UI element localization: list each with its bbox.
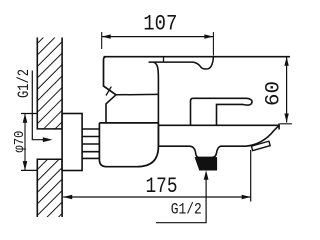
dim 60: extension bottom bbox=[280, 123, 292, 125]
lower body rounded block bbox=[99, 123, 158, 167]
lever underside + hook bbox=[149, 57, 214, 69]
lever top front tick bbox=[163, 57, 165, 62]
dim 175: right extension bbox=[250, 150, 252, 202]
cap right edge vertical down to spout underside bbox=[154, 62, 159, 146]
shower outlet nipple bbox=[251, 141, 270, 150]
dim 107: extension lines bbox=[101, 32, 103, 49]
dim 60: line bbox=[286, 57, 288, 123]
ledge line B (spout top) bbox=[158, 124, 279, 126]
ledge step bbox=[157, 123, 159, 125]
wall (hatched band) bbox=[36, 38, 63, 218]
svg-text:107: 107 bbox=[143, 11, 177, 36]
dim 107: arrows bbox=[102, 34, 111, 38]
wall left edge (bottom section) bbox=[36, 159, 38, 217]
svg-text:175: 175 bbox=[146, 174, 178, 199]
svg-text:G1/2: G1/2 bbox=[15, 69, 33, 98]
body right edge bbox=[278, 123, 280, 129]
dim phi70: line + arrows bbox=[24, 114, 26, 171]
aerator (black) bbox=[195, 158, 216, 170]
svg-text:φ70: φ70 bbox=[12, 131, 28, 153]
dim phi70: extensions bbox=[21, 113, 38, 115]
spout underside with aerator dip bbox=[158, 125, 279, 157]
small handle (right) bbox=[191, 98, 253, 125]
pipe ribs bbox=[82, 129, 99, 158]
svg-text:60: 60 bbox=[263, 81, 286, 106]
cap left edge bbox=[104, 57, 117, 95]
body shoulder notch bbox=[106, 95, 116, 123]
wall right edge (bottom section) bbox=[61, 159, 63, 217]
wall left edge (top section) bbox=[36, 38, 38, 129]
dim 60: arrows bbox=[284, 57, 288, 66]
svg-text:G1/2: G1/2 bbox=[171, 201, 202, 219]
wall right edge (top section) bbox=[61, 38, 63, 129]
dim 175: line bbox=[63, 196, 251, 198]
cap/body seam bbox=[116, 93, 158, 95]
ledge line A (under cartridge) bbox=[99, 122, 158, 124]
dim 107: line bbox=[102, 36, 214, 38]
dim 175: arrows bbox=[63, 195, 72, 199]
wall channel (pipe hole) bbox=[36, 130, 63, 159]
small spur (peak) bbox=[106, 87, 111, 96]
escutcheon plate bbox=[62, 114, 82, 171]
faucet top line (body top, extends to 60-dim) bbox=[104, 56, 291, 58]
